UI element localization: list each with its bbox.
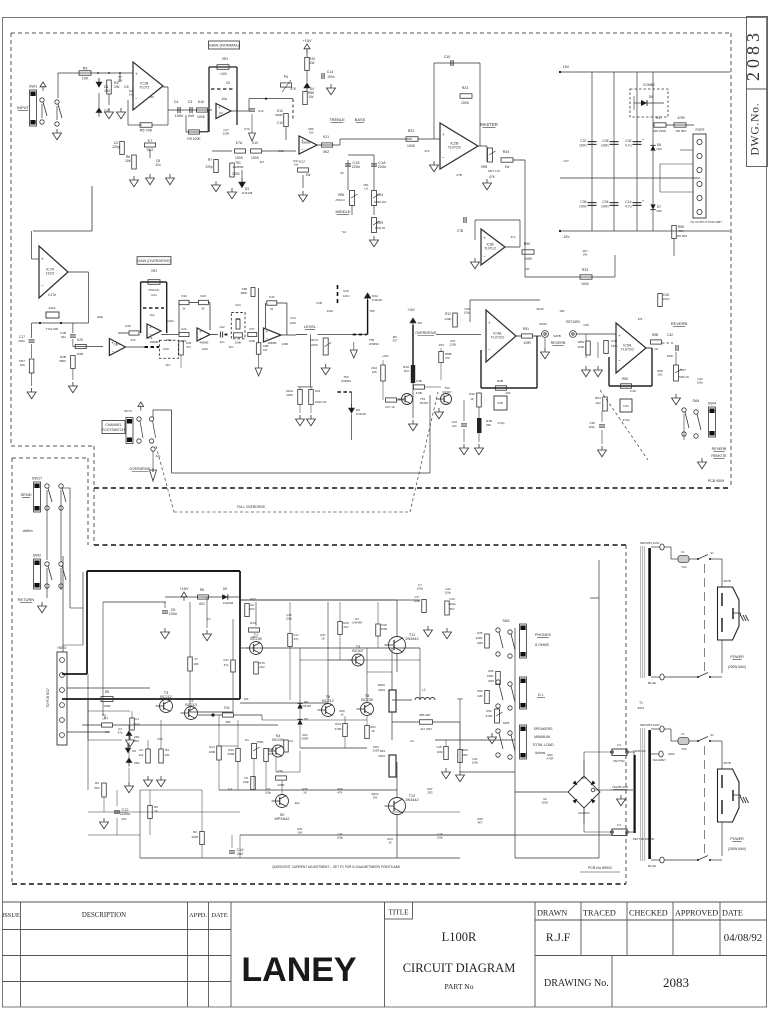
svg-text:GAIN (NORMAL): GAIN (NORMAL)	[209, 42, 240, 47]
svg-text:1K2: 1K2	[595, 401, 601, 405]
svg-text:470K: 470K	[416, 391, 423, 395]
svg-text:C32: C32	[667, 333, 673, 337]
svg-text:VR9: VR9	[377, 221, 384, 225]
svg-text:2u2: 2u2	[228, 787, 233, 791]
svg-text:T50K: T50K	[256, 740, 263, 744]
svg-text:K33: K33	[181, 294, 187, 298]
svg-text:100K.OS: 100K.OS	[315, 400, 326, 404]
svg-text:HDR2: HDR2	[58, 646, 67, 650]
svg-text:470R: 470R	[677, 116, 685, 120]
svg-text:REVERB: REVERB	[551, 341, 566, 345]
svg-text:35V: 35V	[450, 607, 455, 611]
svg-text:C6: C6	[124, 85, 129, 89]
svg-text:100p: 100p	[265, 791, 272, 795]
svg-text:KB6 4R7: KB6 4R7	[419, 713, 431, 717]
svg-text:100n: 100n	[579, 205, 587, 209]
svg-text:100K: 100K	[235, 156, 244, 160]
svg-text:100n: 100n	[437, 836, 444, 840]
svg-text:−: −	[149, 332, 152, 337]
svg-text:4A7 2W3: 4A7 2W3	[420, 727, 432, 731]
svg-text:MASTER: MASTER	[480, 122, 497, 127]
svg-text:1W: 1W	[505, 165, 511, 169]
svg-text:1K: 1K	[203, 697, 207, 701]
svg-text:270p: 270p	[623, 418, 630, 422]
svg-text:63V: 63V	[122, 817, 127, 821]
svg-text:1K: 1K	[388, 841, 392, 845]
svg-text:5K6: 5K6	[95, 786, 100, 790]
svg-text:100K: 100K	[251, 156, 260, 160]
svg-text:100u: 100u	[445, 591, 452, 595]
svg-text:CIRCUIT DIAGRAM: CIRCUIT DIAGRAM	[403, 961, 516, 975]
svg-text:+: +	[41, 257, 44, 262]
svg-text:0R22: 0R22	[378, 688, 385, 692]
svg-text:K7: K7	[148, 139, 153, 143]
svg-text:47p: 47p	[224, 663, 229, 667]
svg-text:47: 47	[194, 657, 198, 661]
svg-text:INPUT: INPUT	[17, 105, 30, 110]
svg-text:R6: R6	[193, 830, 197, 834]
svg-text:~15V: ~15V	[381, 354, 389, 358]
svg-text:2W5: 2W5	[488, 679, 494, 683]
svg-text:D.I.: D.I.	[538, 693, 544, 697]
svg-text:-6dBm: -6dBm	[22, 529, 33, 533]
svg-text:BROWN 120V: BROWN 120V	[640, 541, 659, 545]
svg-text:R45: R45	[477, 631, 483, 635]
svg-text:+: +	[483, 236, 486, 241]
svg-text:F1: F1	[681, 550, 685, 554]
svg-text:1W: 1W	[129, 93, 134, 97]
svg-text:C10: C10	[444, 55, 451, 59]
svg-text:K7A: K7A	[244, 127, 250, 131]
svg-text:C21: C21	[235, 303, 241, 307]
svg-text:10K: 10K	[524, 267, 529, 271]
svg-text:YEL/GREY: YEL/GREY	[652, 758, 666, 762]
svg-text:CHECKED: CHECKED	[629, 909, 668, 918]
svg-text:BC239: BC239	[272, 738, 284, 742]
svg-text:2K2LIN: 2K2LIN	[375, 226, 385, 230]
svg-text:T1: T1	[639, 701, 643, 705]
svg-text:2R2: 2R2	[427, 791, 433, 795]
svg-text:TO PCB 9017: TO PCB 9017	[46, 688, 50, 708]
svg-text:RETURN: RETURN	[566, 320, 580, 324]
svg-text:C2: C2	[139, 748, 143, 752]
svg-text:100n: 100n	[175, 114, 183, 118]
svg-text:R4: R4	[165, 748, 169, 752]
svg-text:1K: 1K	[321, 637, 325, 641]
svg-text:R37: R37	[656, 116, 662, 120]
svg-text:2N3442: 2N3442	[405, 798, 418, 802]
svg-text:W: W	[202, 307, 205, 311]
svg-text:2K2: 2K2	[404, 369, 410, 373]
svg-text:220K: 220K	[311, 343, 318, 347]
svg-text:10K: 10K	[658, 373, 663, 377]
svg-text:R34: R34	[503, 150, 509, 154]
svg-text:2K2: 2K2	[344, 625, 349, 629]
svg-text:100n: 100n	[601, 205, 609, 209]
svg-text:6021: 6021	[638, 706, 645, 710]
svg-text:47K: 47K	[424, 149, 429, 153]
svg-text:R18: R18	[381, 623, 387, 627]
svg-text:K4? 1K: K4? 1K	[385, 405, 395, 409]
svg-text:VR6: VR6	[338, 193, 345, 197]
svg-text:1W: 1W	[309, 95, 314, 99]
svg-text:1N4148: 1N4148	[301, 704, 311, 708]
svg-text:R?: R?	[208, 158, 212, 162]
svg-text:20V: 20V	[134, 739, 139, 743]
svg-text:C2B: C2B	[316, 301, 322, 305]
svg-text:100n: 100n	[166, 338, 173, 342]
svg-text:6A3: 6A3	[315, 389, 321, 393]
svg-text:100n: 100n	[169, 612, 177, 616]
svg-text:R5B: R5B	[652, 333, 658, 337]
svg-text:SD43: SD43	[539, 322, 547, 326]
svg-text:1N2: 1N2	[656, 209, 662, 213]
svg-text:K4B: K4B	[416, 379, 422, 383]
svg-text:D5: D5	[223, 587, 227, 591]
svg-text:BROWN 240V: BROWN 240V	[640, 723, 659, 727]
svg-text:1N4148: 1N4148	[242, 191, 253, 195]
svg-text:10K: 10K	[372, 370, 377, 374]
svg-text:S1: S1	[710, 733, 714, 737]
svg-text:2p2: 2p2	[134, 722, 139, 726]
svg-text:C17b: C17b	[48, 293, 56, 297]
svg-text:1K: 1K	[470, 397, 474, 401]
svg-text:0R5: 0R5	[457, 697, 463, 701]
svg-text:R6: R6	[150, 95, 154, 99]
svg-text:680R: 680R	[241, 291, 247, 295]
svg-text:1W: 1W	[309, 131, 314, 135]
svg-text:2W: 2W	[583, 253, 588, 257]
svg-text:100n: 100n	[327, 75, 334, 79]
svg-text:TL072: TL072	[139, 86, 149, 90]
svg-text:W: W	[270, 307, 273, 311]
svg-text:K7A: K7A	[236, 141, 243, 145]
svg-text:D3: D3	[132, 749, 136, 753]
svg-text:TL072/2: TL072/2	[621, 348, 634, 352]
svg-text:4ohms: 4ohms	[535, 751, 546, 755]
svg-text:5W: 5W	[373, 796, 378, 800]
svg-text:−: −	[301, 147, 304, 152]
svg-text:+: +	[266, 329, 269, 334]
svg-text:TO OUTPUT PCB 9097: TO OUTPUT PCB 9097	[690, 220, 722, 224]
svg-text:−: −	[618, 358, 621, 363]
svg-text:R55: R55	[622, 377, 628, 381]
svg-text:10K: 10K	[125, 159, 132, 163]
svg-text:100n: 100n	[202, 347, 209, 351]
svg-text:+15V: +15V	[407, 308, 415, 312]
svg-text:R54: R54	[595, 396, 601, 400]
svg-text:47K: 47K	[489, 175, 496, 179]
svg-text:A4: A4	[410, 739, 414, 743]
svg-text:-15V: -15V	[562, 235, 570, 239]
svg-text:TREBLE: TREBLE	[329, 117, 345, 122]
svg-text:R4B: R4B	[497, 379, 503, 383]
svg-text:10K: 10K	[225, 720, 231, 724]
svg-text:C35: C35	[602, 139, 608, 143]
svg-text:100R: 100R	[103, 704, 111, 708]
svg-text:+: +	[618, 333, 621, 338]
svg-text:2N3819: 2N3819	[341, 379, 351, 383]
svg-text:GAIN (OVERDRIVE): GAIN (OVERDRIVE)	[137, 259, 170, 263]
svg-text:DRAWING No.: DRAWING No.	[544, 978, 609, 989]
svg-text:4k7: 4k7	[260, 160, 265, 164]
svg-text:DWG.No.: DWG.No.	[750, 103, 762, 156]
svg-text:*1F: *1F	[340, 171, 345, 175]
svg-text:100p: 100p	[464, 311, 471, 315]
svg-text:1N2: 1N2	[656, 147, 662, 151]
svg-text:C18: C18	[436, 745, 442, 749]
svg-text:10K: 10K	[193, 662, 198, 666]
svg-text:10K: 10K	[559, 309, 564, 313]
svg-text:100n: 100n	[667, 354, 674, 358]
svg-text:470R: 470R	[486, 714, 493, 718]
svg-text:R42: R42	[469, 392, 475, 396]
svg-text:680R: 680R	[275, 113, 283, 117]
svg-text:R.J.F: R.J.F	[546, 932, 570, 944]
svg-text:D8: D8	[649, 95, 653, 99]
svg-text:K57: K57	[249, 327, 255, 331]
svg-text:243B1B: 243B1B	[233, 165, 244, 169]
svg-text:52n: 52n	[61, 335, 66, 339]
svg-text:22n: 22n	[220, 340, 225, 344]
svg-text:BLUE: BLUE	[648, 681, 656, 685]
svg-text:DATE: DATE	[722, 909, 743, 918]
svg-text:1W: 1W	[310, 61, 315, 65]
svg-text:VR1: VR1	[222, 57, 229, 61]
svg-text:ORANGE: ORANGE	[633, 749, 646, 753]
svg-text:VR?: VR?	[680, 368, 686, 372]
svg-text:+: +	[199, 329, 202, 334]
svg-text:100K: 100K	[577, 345, 584, 349]
svg-text:LN: LN	[364, 187, 368, 191]
svg-text:A30: A30	[277, 769, 283, 773]
svg-text:220n: 220n	[378, 165, 386, 169]
svg-text:47K: 47K	[130, 338, 135, 342]
svg-text:4.7u: 4.7u	[625, 144, 632, 148]
svg-text:A7,: A7,	[207, 617, 212, 621]
svg-text:1K: 1K	[371, 729, 375, 733]
svg-text:C12: C12	[258, 109, 264, 113]
svg-text:T2A: T2A	[681, 565, 686, 569]
svg-text:REMOTE: REMOTE	[711, 454, 727, 458]
svg-text:DATE: DATE	[211, 912, 227, 919]
svg-text:330R: 330R	[228, 752, 235, 756]
svg-text:220K: 220K	[450, 343, 457, 347]
svg-text:*LF: *LF	[342, 230, 347, 234]
svg-text:R32: R32	[486, 709, 492, 713]
svg-text:2083: 2083	[663, 975, 689, 990]
svg-text:100R: 100R	[487, 674, 494, 678]
svg-text:+: +	[218, 105, 221, 110]
svg-text:220K: 220K	[223, 132, 230, 136]
svg-text:BC213: BC213	[185, 703, 197, 707]
svg-text:420R: 420R	[278, 783, 285, 787]
svg-text:POWER: POWER	[730, 837, 744, 841]
svg-text:3K2: 3K2	[323, 150, 329, 154]
svg-text:10a: 10a	[221, 97, 227, 101]
svg-text:D9: D9	[304, 717, 308, 721]
svg-text:+15V: +15V	[180, 587, 189, 591]
svg-text:100n: 100n	[579, 144, 587, 148]
svg-text:PHONES: PHONES	[535, 633, 552, 637]
svg-text:APPROVED: APPROVED	[675, 909, 718, 918]
svg-text:MPSA42: MPSA42	[275, 817, 290, 821]
svg-text:K2A: K2A	[181, 327, 187, 331]
svg-text:47K: 47K	[181, 339, 186, 343]
svg-text:4068/B: 4068/B	[268, 341, 277, 345]
svg-text:100R: 100R	[523, 341, 531, 345]
svg-text:PE77SR WHITE: PE77SR WHITE	[633, 837, 654, 841]
svg-text:R6: R6	[200, 588, 204, 592]
svg-text:10K: 10K	[20, 363, 25, 367]
svg-text:<100: <100	[219, 72, 226, 76]
svg-text:1K: 1K	[303, 791, 307, 795]
svg-text:DRAWN: DRAWN	[537, 909, 567, 918]
svg-text:FULL OVERDRIVE: FULL OVERDRIVE	[237, 505, 266, 509]
svg-text:+: +	[149, 325, 152, 330]
svg-text:470R: 470R	[335, 727, 342, 731]
svg-text:−: −	[111, 349, 114, 354]
svg-text:K40: K40	[269, 295, 275, 299]
svg-text:100p: 100p	[243, 780, 250, 784]
svg-text:SW3: SW3	[503, 619, 510, 623]
svg-text:C20A: C20A	[166, 319, 174, 323]
svg-text:2K2: 2K2	[249, 607, 255, 611]
svg-text:(200W MAX): (200W MAX)	[728, 847, 746, 851]
svg-text:R24: R24	[380, 749, 386, 753]
svg-text:MC307: MC307	[442, 390, 451, 394]
svg-text:BASS: BASS	[355, 117, 366, 122]
svg-text:474: 474	[186, 345, 191, 349]
svg-text:1K: 1K	[340, 713, 344, 717]
svg-text:LEVEL: LEVEL	[304, 324, 317, 329]
svg-text:100n: 100n	[663, 297, 670, 301]
svg-text:100K: 100K	[197, 115, 206, 119]
svg-text:R9 100K: R9 100K	[187, 137, 201, 141]
svg-text:2W MIN: 2W MIN	[677, 234, 687, 238]
svg-text:ZD2: ZD2	[134, 761, 140, 765]
svg-text:R51: R51	[523, 327, 529, 331]
svg-text:K10: K10	[252, 141, 258, 145]
svg-text:R13: R13	[250, 597, 256, 601]
svg-text:BLUE: BLUE	[648, 864, 656, 868]
svg-text:F4: F4	[617, 823, 621, 827]
svg-text:C3?: C3?	[563, 159, 569, 163]
svg-text:R26: R26	[477, 689, 483, 693]
svg-text:TL072/2: TL072/2	[448, 146, 461, 150]
svg-text:240p: 240p	[49, 306, 56, 310]
svg-text:2W MIN: 2W MIN	[676, 129, 687, 133]
svg-text:C31: C31	[623, 404, 629, 408]
svg-text:R22: R22	[408, 129, 415, 133]
svg-text:TL072/2: TL072/2	[491, 336, 504, 340]
svg-text:R19: R19	[335, 722, 341, 726]
svg-text:C24: C24	[290, 316, 296, 320]
svg-text:+: +	[135, 72, 138, 77]
svg-text:REVERB: REVERB	[712, 447, 727, 451]
svg-text:R26A: R26A	[378, 683, 385, 687]
svg-text:R3: R3	[83, 67, 88, 71]
svg-text:4.3K: 4.3K	[630, 389, 636, 393]
svg-text:220n: 220n	[18, 339, 25, 343]
svg-text:−: −	[41, 283, 44, 288]
svg-text:MK7 LIN: MK7 LIN	[488, 169, 500, 173]
svg-text:220R: 220R	[476, 636, 483, 640]
svg-text:220K: 220K	[286, 393, 293, 397]
svg-text:2K2: 2K2	[259, 665, 265, 669]
svg-text:A/C: A/C	[155, 454, 161, 458]
svg-text:R29: R29	[462, 748, 468, 752]
svg-text:C32: C32	[625, 139, 631, 143]
svg-text:15V: 15V	[563, 65, 570, 69]
svg-text:C14: C14	[625, 200, 631, 204]
svg-text:+15V: +15V	[303, 39, 312, 43]
svg-text:2200u: 2200u	[120, 812, 131, 816]
svg-text:110/2: 110/2	[46, 272, 55, 276]
svg-text:1N4148: 1N4148	[356, 412, 366, 416]
svg-text:R46: R46	[488, 669, 494, 673]
svg-text:P1: P1	[245, 738, 249, 742]
svg-text:220K: 220K	[232, 172, 240, 176]
svg-text:100K: 100K	[407, 144, 416, 148]
svg-text:K10: K10	[198, 100, 204, 104]
svg-text:MINIMUM: MINIMUM	[534, 735, 550, 739]
svg-text:2p2: 2p2	[139, 753, 144, 757]
svg-text:VR4: VR4	[377, 193, 384, 197]
svg-text:−: −	[199, 335, 202, 340]
svg-text:SW4: SW4	[693, 399, 700, 403]
svg-text:2N3819: 2N3819	[369, 342, 379, 346]
svg-text:2W5: 2W5	[477, 641, 483, 645]
svg-text:25KLN: 25KLN	[335, 198, 344, 202]
svg-text:220p: 220p	[337, 836, 344, 840]
svg-text:04/08/92: 04/08/92	[724, 932, 762, 944]
svg-text:C28: C28	[497, 401, 503, 405]
svg-text:150K: 150K	[76, 352, 84, 356]
svg-text:100K: 100K	[235, 341, 242, 345]
svg-text:R3: R3	[95, 781, 99, 785]
svg-text:R8: R8	[105, 690, 109, 694]
svg-text:1W: 1W	[114, 85, 120, 89]
svg-text:TR5: TR5	[369, 309, 375, 313]
svg-text:APPD.: APPD.	[189, 912, 207, 919]
svg-text:220R: 220R	[373, 749, 380, 753]
svg-text:BC307: BC307	[420, 401, 429, 405]
svg-text:VR8: VR8	[481, 165, 488, 169]
svg-text:100K: 100K	[581, 282, 590, 286]
svg-text:C22: C22	[219, 325, 225, 329]
svg-text:OVERDRIVE: OVERDRIVE	[129, 467, 151, 471]
svg-text:−: −	[442, 155, 445, 160]
svg-text:C37: C37	[580, 139, 586, 143]
svg-text:PART No: PART No	[445, 982, 474, 991]
svg-text:R16: R16	[278, 149, 284, 153]
svg-text:DESCRIPTION: DESCRIPTION	[82, 912, 126, 919]
svg-text:22n: 22n	[229, 345, 234, 349]
svg-text:4068/B: 4068/B	[301, 141, 310, 145]
svg-text:50KLIN: 50KLIN	[679, 375, 689, 379]
svg-text:PORT: PORT	[695, 128, 704, 132]
svg-text:(200W MAX): (200W MAX)	[728, 665, 746, 669]
svg-text:470R: 470R	[547, 757, 554, 761]
svg-text:47K: 47K	[338, 791, 343, 795]
svg-text:RETURN: RETURN	[18, 597, 35, 602]
svg-text:D6: D6	[418, 321, 422, 325]
svg-text:0R22: 0R22	[378, 754, 385, 758]
svg-text:6K2: 6K2	[199, 602, 205, 606]
svg-text:8 OHMS: 8 OHMS	[535, 643, 549, 647]
svg-text:SW5: SW5	[503, 721, 510, 725]
